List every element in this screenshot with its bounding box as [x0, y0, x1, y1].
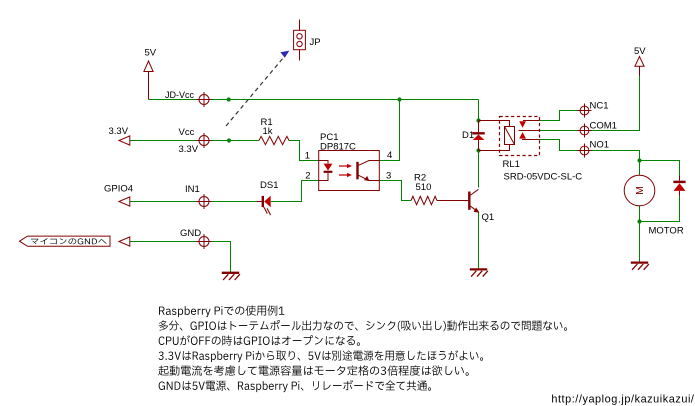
wire PC1 pin3 to R2: [379, 181, 411, 201]
wire flyback diode branch top: [640, 161, 680, 177]
ground (Q1 emitter): [470, 269, 488, 276]
wire JD-Vcc drop to D1/relay node: [478, 100, 480, 121]
connector JP (jumper header): [294, 20, 306, 61]
PC1 internal LED: [319, 161, 333, 181]
svg-text:Q1: Q1: [482, 212, 495, 223]
connector pad GND: [197, 234, 212, 249]
node junction Vcc: [227, 138, 231, 142]
note text line 3: [159, 335, 360, 345]
svg-text:http://yaplog.jp/kazuikazui/: http://yaplog.jp/kazuikazui/: [551, 394, 695, 406]
svg-text:GND: GND: [180, 228, 201, 239]
svg-text:MOTOR: MOTOR: [649, 226, 684, 237]
power symbol 3.3V: [119, 136, 130, 145]
wire motor node to ground: [639, 222, 641, 263]
note text line 1: [159, 305, 284, 317]
svg-text:5V: 5V: [634, 46, 646, 57]
connector pad NC1: [578, 104, 592, 118]
svg-text:3.3V: 3.3V: [179, 144, 199, 155]
node junction motor bottom: [637, 219, 641, 223]
svg-text:2: 2: [305, 171, 310, 182]
svg-text:5V: 5V: [145, 48, 157, 59]
svg-text:1k: 1k: [263, 126, 273, 137]
svg-text:Vcc: Vcc: [179, 127, 195, 138]
note text line 4: [158, 350, 483, 362]
svg-text:IN1: IN1: [185, 184, 200, 195]
wire relay NO contact to NO1: [540, 140, 581, 151]
op-amp U? no: optocoupler PC1 DP817C body: [319, 151, 380, 191]
diode across motor: [673, 176, 685, 196]
note text line 6: [159, 380, 431, 392]
transistor Q1 (NPN): [469, 189, 479, 212]
wire flyback diode branch bottom: [640, 196, 680, 222]
wire Vcc from 3.3V to R1: [130, 140, 259, 142]
resistor R2 510: [411, 196, 468, 204]
svg-text:DS1: DS1: [260, 180, 278, 191]
svg-text:3: 3: [386, 171, 391, 182]
svg-text:JD-Vcc: JD-Vcc: [165, 90, 194, 100]
pin GPIO4 input triangle: [119, 197, 130, 206]
wire GND net to ground: [130, 242, 231, 273]
relay RL1 contacts: [519, 121, 540, 140]
svg-text:JP: JP: [310, 37, 321, 48]
diode D1 (flyback across relay coil): [472, 121, 484, 151]
wire motor bottom pin: [639, 206, 641, 222]
svg-text:COM1: COM1: [590, 120, 617, 131]
wire COM1 to 5V: [589, 75, 640, 131]
LED DS1: [257, 196, 271, 216]
annotation dashed arrow to JP: [226, 51, 289, 126]
svg-text:SRD-05VDC-SL-C: SRD-05VDC-SL-C: [504, 171, 583, 182]
svg-text:510: 510: [416, 182, 432, 193]
wire Q1 collector riser: [478, 151, 480, 188]
connector pad JD-Vcc: [197, 92, 212, 107]
connector pad IN1: [197, 194, 212, 209]
net flag "to microcontroller GND": [20, 236, 111, 246]
node junction relay coil top: [476, 118, 480, 122]
relay RL1 coil: [479, 121, 515, 151]
wire DS1 to PC1 pin2: [271, 181, 319, 202]
note text line 2: [159, 320, 567, 331]
svg-text:4: 4: [387, 150, 392, 161]
wire R1 to PC1 pin1: [289, 141, 319, 161]
PC1 light arrows: [339, 164, 352, 177]
wire motor top pin: [639, 161, 641, 176]
connector pad NO1: [578, 144, 592, 158]
wire relay COM to COM1: [540, 130, 581, 132]
power symbol 5V (left): [144, 61, 153, 100]
svg-text:3.3V: 3.3V: [109, 126, 129, 137]
svg-text:RL1: RL1: [503, 159, 520, 170]
wire Q1 emitter to ground: [478, 213, 480, 270]
node junction motor top: [637, 158, 641, 162]
motor M1: [624, 175, 655, 206]
svg-text:D1: D1: [462, 130, 474, 141]
wire PC1 pin4 riser to JD-Vcc: [379, 100, 399, 161]
pin GND input triangle: [119, 237, 130, 246]
node junction JD-Vcc B: [397, 97, 401, 101]
wire JD-Vcc bus: [149, 99, 479, 101]
flag text: [31, 238, 107, 244]
svg-text:1: 1: [305, 151, 310, 162]
note text line 5: [158, 365, 469, 375]
relay RL1 dashed outline: [500, 117, 540, 156]
wire NO1 to motor node: [589, 151, 640, 161]
node junction relay coil bottom: [476, 148, 480, 152]
svg-text:M: M: [634, 186, 646, 195]
svg-text:GPIO4: GPIO4: [104, 184, 133, 195]
connector pad Vcc: [197, 133, 212, 148]
svg-text:DP817C: DP817C: [320, 141, 356, 152]
resistor R1 1k: [259, 136, 289, 144]
svg-text:NO1: NO1: [590, 139, 610, 150]
wire relay NC contact to NC1: [540, 111, 581, 121]
connector pad COM1: [578, 124, 592, 138]
power symbol 5V (right): [635, 57, 644, 77]
wire GPIO4 to DS1: [130, 201, 257, 203]
ground (motor): [631, 263, 649, 270]
svg-text:NC1: NC1: [590, 100, 609, 111]
PC1 phototransistor: [358, 161, 380, 182]
ground (GND net): [222, 273, 240, 280]
node junction JD-Vcc A: [227, 97, 231, 101]
